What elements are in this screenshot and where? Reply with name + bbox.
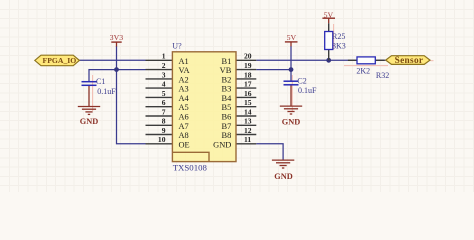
svg-text:6: 6: [162, 98, 166, 107]
power 5V above C2: [285, 33, 298, 46]
wire C1 corner vertical: [88, 69, 90, 81]
svg-text:18: 18: [244, 70, 252, 79]
svg-text:B8: B8: [222, 131, 232, 140]
svg-text:R32: R32: [376, 71, 389, 80]
ground below IC pin 11: [272, 160, 294, 168]
svg-text:5V: 5V: [287, 33, 297, 42]
svg-text:16: 16: [244, 89, 252, 98]
port FPGA_IO: [35, 55, 80, 65]
svg-text:5: 5: [162, 89, 166, 98]
svg-text:TXS0108: TXS0108: [173, 163, 208, 173]
svg-text:FPGA_IO: FPGA_IO: [43, 56, 77, 65]
svg-text:C2: C2: [297, 76, 306, 85]
svg-text:A5: A5: [179, 103, 189, 112]
power 3V3: [110, 33, 124, 46]
svg-text:VA: VA: [179, 66, 190, 75]
svg-text:A7: A7: [179, 122, 189, 131]
svg-text:17: 17: [244, 80, 252, 89]
svg-text:B2: B2: [222, 75, 232, 84]
pin numbers right 20-11: [244, 52, 252, 145]
IC U7 bottom-left notch: [172, 152, 209, 161]
svg-text:A6: A6: [179, 113, 189, 122]
svg-text:5V: 5V: [324, 10, 334, 19]
svg-text:B5: B5: [222, 103, 232, 112]
svg-text:2: 2: [162, 61, 166, 70]
svg-text:B4: B4: [222, 94, 233, 103]
svg-text:GND: GND: [213, 140, 231, 149]
svg-text:B1: B1: [222, 57, 232, 66]
ground below C1: [78, 107, 100, 115]
capacitor C1: [82, 77, 117, 106]
IC U7 pin stubs left: [146, 60, 173, 144]
svg-text:19: 19: [244, 61, 252, 70]
pink artifact line under 2K2: [344, 65, 388, 67]
svg-text:B3: B3: [222, 85, 232, 94]
svg-text:C1: C1: [96, 77, 105, 86]
svg-text:A8: A8: [179, 131, 189, 140]
svg-text:14: 14: [244, 107, 252, 116]
svg-text:9: 9: [162, 126, 166, 135]
pin names left: [179, 57, 190, 150]
wire 5V to C2 vertical: [290, 46, 292, 81]
ground below C2: [280, 106, 302, 114]
resistor R25: [325, 23, 346, 60]
svg-text:15: 15: [244, 98, 252, 107]
junction node VB/5V: [289, 67, 294, 72]
svg-text:3K3: 3K3: [332, 42, 346, 51]
pin names right: [213, 57, 232, 150]
pin numbers left 1-10: [158, 52, 166, 145]
port Sensor: [386, 56, 430, 65]
wire GND pin to ground: [256, 144, 283, 160]
svg-text:1: 1: [162, 52, 166, 61]
svg-text:U?: U?: [172, 41, 182, 50]
capacitor C2: [284, 76, 318, 106]
svg-text:GND: GND: [274, 172, 292, 181]
svg-text:10: 10: [158, 135, 166, 144]
svg-text:A3: A3: [179, 85, 189, 94]
pink artifact line near R25: [333, 24, 335, 50]
svg-text:2K2: 2K2: [356, 66, 370, 75]
junction node B1/R25: [326, 58, 331, 63]
svg-text:VB: VB: [220, 66, 232, 75]
svg-text:Sensor: Sensor: [395, 56, 424, 66]
junction node VA/3V3: [114, 67, 119, 72]
svg-text:B6: B6: [222, 113, 232, 122]
wire VA net horizontal: [89, 69, 146, 71]
svg-text:8: 8: [162, 117, 166, 126]
svg-text:13: 13: [244, 117, 252, 126]
wire FPGA_IO to pin1: [79, 59, 145, 61]
svg-text:GND: GND: [80, 117, 98, 126]
svg-text:B7: B7: [222, 122, 232, 131]
power 5V above R25: [322, 10, 335, 23]
svg-text:R25: R25: [332, 32, 345, 41]
svg-text:12: 12: [244, 126, 252, 135]
wire 3V3 vertical down to OE: [117, 46, 146, 144]
pink artifact tick right of Sensor: [431, 60, 434, 62]
svg-text:0.1uF: 0.1uF: [97, 87, 116, 96]
IC U7 pin stubs right: [236, 60, 256, 144]
IC U7 body: [172, 52, 236, 162]
wire VB horizontal: [256, 69, 291, 71]
svg-text:A1: A1: [179, 57, 189, 66]
svg-text:4: 4: [162, 80, 166, 89]
pink artifact line near C1: [92, 75, 94, 111]
svg-text:11: 11: [244, 135, 251, 144]
pink artifact line near C2: [291, 75, 293, 111]
svg-text:3V3: 3V3: [110, 33, 124, 42]
svg-text:7: 7: [162, 107, 166, 116]
svg-text:A2: A2: [179, 75, 189, 84]
svg-text:20: 20: [244, 52, 252, 61]
svg-text:0.1uF: 0.1uF: [298, 86, 317, 95]
svg-text:3: 3: [162, 70, 166, 79]
svg-text:GND: GND: [282, 117, 300, 126]
svg-text:A4: A4: [179, 94, 190, 103]
wire B1 row horizontal: [256, 59, 386, 61]
svg-text:OE: OE: [179, 140, 190, 149]
resistor R32: [348, 57, 389, 80]
